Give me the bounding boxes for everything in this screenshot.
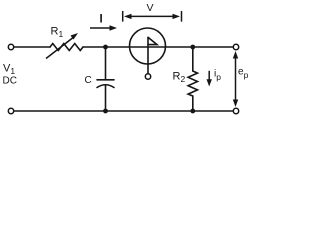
capacitor C top plate bbox=[97, 79, 114, 81]
junction node C top bbox=[103, 45, 108, 50]
resistor R2 lead top bbox=[192, 47, 194, 71]
plate current ip arrow bbox=[207, 71, 212, 87]
resistor R2 lead bottom bbox=[192, 96, 194, 111]
junction node R2 top bbox=[190, 45, 195, 50]
svg-text:ip: ip bbox=[214, 69, 221, 83]
terminal top-left bbox=[8, 44, 13, 49]
terminal bottom-left bbox=[8, 108, 13, 113]
terminal top-right bbox=[233, 44, 238, 49]
resistor R2 bbox=[188, 71, 197, 96]
resistor R1 wiper arrow bbox=[46, 33, 78, 59]
svg-text:DC: DC bbox=[3, 76, 17, 87]
capacitor C lead bottom bbox=[105, 85, 107, 111]
tube grid terminal bbox=[145, 74, 150, 79]
resistor R1 bbox=[50, 44, 83, 51]
junction node C bottom bbox=[103, 109, 108, 114]
wire bottom rail bbox=[14, 110, 234, 112]
svg-text:V1: V1 bbox=[3, 63, 15, 77]
terminal bottom-right bbox=[233, 108, 238, 113]
svg-text:R2: R2 bbox=[173, 71, 186, 85]
voltage V dimension arrows bbox=[123, 11, 182, 22]
svg-text:C: C bbox=[85, 75, 92, 86]
junction node R2 bottom bbox=[190, 109, 195, 114]
capacitor C bottom plate bbox=[97, 85, 114, 88]
tube U1 cathode lead bbox=[147, 64, 149, 74]
tube U1 flag bbox=[148, 37, 157, 44]
tube U1 envelope bbox=[130, 28, 166, 64]
svg-text:I: I bbox=[100, 14, 103, 26]
capacitor C lead top bbox=[105, 47, 107, 80]
current I arrow bbox=[90, 25, 117, 30]
wire top rail bbox=[14, 46, 50, 48]
svg-text:R1: R1 bbox=[51, 26, 64, 40]
svg-text:V: V bbox=[147, 2, 154, 14]
plate voltage ep dimension arrow bbox=[233, 51, 238, 107]
wire top rail mid bbox=[83, 46, 233, 48]
tube U1 inner electrode bbox=[147, 38, 149, 65]
svg-text:ep: ep bbox=[238, 67, 249, 81]
